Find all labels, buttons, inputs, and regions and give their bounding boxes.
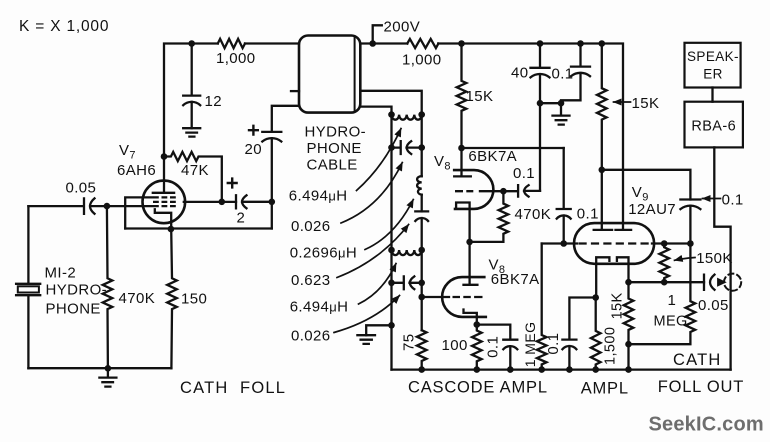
capacitor 0.1 (beside 40) [561,44,590,104]
V9 left cathode [596,257,609,297]
V8 lower cathode [464,310,477,325]
resistor 15K (V9 cathode) [624,282,634,369]
inductor 6.494uH (top) [392,115,422,120]
wire output node vertical [271,138,273,228]
RBA-6 box [685,102,743,148]
capacitor 0.026 (top) [392,141,422,154]
hydrophone cable inner edge [354,38,356,111]
wire top rail left segment [164,44,299,157]
wire speaker to RBA-6 [711,88,713,102]
V7 cathode [155,209,171,229]
filter right rail upper [421,115,423,177]
resistor 47K [164,152,222,202]
svg-text:12: 12 [205,93,223,110]
svg-text:150K: 150K [696,250,733,267]
svg-text:12AU7: 12AU7 [628,201,676,218]
wire bottom rail [392,368,731,370]
arrow 6.494uH lower [359,264,397,305]
capacitor 0.1 (output) [680,200,700,244]
V8 lower plate [464,242,478,285]
wire 1MEG top to grid node [542,242,564,244]
tube V7 envelope [143,181,186,224]
V9 grid line [564,242,691,244]
svg-text:6BK7A: 6BK7A [468,148,517,165]
output jack (dashed circle) [724,274,741,291]
svg-text:20: 20 [245,141,263,158]
capacitor 0.1 (cascode grid) [518,185,540,196]
wire V9 plate output run [602,170,691,200]
svg-text:470K: 470K [515,206,552,223]
resistor 15K (cascode plate) [457,44,467,149]
svg-text:0.026: 0.026 [291,218,331,235]
V7 suppressor tie wire [125,197,152,228]
svg-text:0.623: 0.623 [291,272,331,289]
wire stub left of cable [291,90,299,92]
V8 upper cathode [456,203,470,242]
hydrophone MI-2 element [16,284,40,368]
wire hydrophone left drop [27,206,29,284]
svg-text:CASCODE AMPL: CASCODE AMPL [408,379,548,397]
tube V9 envelope [574,223,654,264]
svg-text:0.1: 0.1 [545,333,562,355]
svg-text:1,500: 1,500 [602,327,618,365]
svg-text:1: 1 [668,292,677,309]
arrow 0.2696uH [365,200,413,250]
filter right rail lower [421,250,423,330]
V8 upper grid [455,190,517,192]
svg-text:200V: 200V [384,19,421,36]
inductor 6.494uH (lower) [392,250,422,255]
V8 upper plate [454,148,471,176]
resistor 100 [472,325,482,370]
resistor 470K (cascode) [470,191,509,242]
svg-text:0.2696μH: 0.2696μH [290,245,357,262]
svg-text:PHONE: PHONE [307,140,362,157]
filter left rail [390,115,392,370]
capacitor 0.026 (lower) [392,276,422,289]
resistor 15K (V9 plate) [597,44,607,170]
svg-text:150: 150 [181,291,207,308]
svg-text:470K: 470K [119,290,156,307]
svg-text:1,000: 1,000 [402,52,442,69]
V8 lower grid [453,296,483,298]
svg-text:47K: 47K [181,162,209,179]
svg-text:RBA-6: RBA-6 [691,119,736,135]
capacitor 0.1 (lower cathode bypass) [477,325,518,370]
resistor 1 MEG (follower) [629,244,696,345]
V7 plate [153,157,174,193]
svg-text:CATH: CATH [673,351,722,369]
resistor 150 [167,229,177,368]
arrow 0.1 output label [703,198,721,200]
svg-text:6.494μH: 6.494μH [290,299,349,316]
capacitor 0.623 (vertical) [415,211,428,250]
svg-text:6.494μH: 6.494μH [289,188,348,205]
svg-text:6AH6: 6AH6 [117,162,156,179]
hydrophone cable body [299,36,360,113]
svg-text:1,000: 1,000 [216,50,256,67]
wire cathode output run [629,281,705,283]
inductor 0.2696uH (vertical) [417,176,422,195]
svg-text:15K: 15K [610,292,626,319]
arrow 0.026 top [341,163,402,224]
tube V8 lower envelope [442,277,486,317]
svg-text:HYDRO-: HYDRO- [46,282,108,299]
wire filter output to V8 lower grid [422,296,449,298]
svg-text:MEG: MEG [654,314,688,330]
arrow 15K label (V9 plate) [614,101,631,103]
ground hydrophone [99,368,116,386]
V9 left plate [594,170,612,230]
ground filter [357,335,375,344]
svg-text:SeekIC.com: SeekIC.com [649,414,764,436]
V9 right cathode [617,257,629,282]
svg-text:PHONE: PHONE [46,301,101,318]
wire cascode coupling run [462,147,564,149]
svg-text:V8: V8 [434,153,451,173]
resistor 1 MEG (cascode grid leak) [537,244,547,370]
arrowhead into output jack [718,278,726,286]
resistor 1,000 (right) [407,39,438,48]
svg-text:40: 40 [511,65,529,82]
capacitor 2 (+) [236,195,272,208]
svg-text:100: 100 [442,337,468,354]
filter right rail mid [421,195,423,212]
capacitor 40 [531,44,550,104]
svg-text:K = X 1,000: K = X 1,000 [19,18,109,35]
svg-text:2: 2 [237,210,246,227]
capacitor 0.05 [28,198,107,213]
svg-text:V7: V7 [119,142,136,162]
svg-text:0.05: 0.05 [698,297,729,314]
capacitor 0.05 [704,275,715,290]
svg-text:0.1: 0.1 [513,165,535,182]
wire filter ground tie [366,325,391,335]
svg-text:15K: 15K [466,88,494,105]
svg-text:AMPL: AMPL [581,380,629,398]
svg-text:FOLL OUT: FOLL OUT [658,378,744,396]
svg-text:ER: ER [703,67,723,82]
resistor 1,000 (left) [218,39,245,48]
wire RBA-6 lead [714,147,730,369]
svg-text:1 MEG: 1 MEG [522,322,538,368]
arrow 0.026 lower [334,296,400,333]
wire bottom left run [28,367,171,369]
resistor 150K [659,244,669,282]
wire cable to filter top [360,91,421,115]
resistor 1,500 [591,298,601,370]
svg-text:0.026: 0.026 [291,328,331,345]
arrow 6.494uH top [357,129,402,191]
capacitor 0.1 (V9 coupling) [557,148,571,244]
svg-text:0.1: 0.1 [485,336,502,358]
plus sign for capacitor 2 [228,179,237,188]
tube V8 upper envelope [454,170,493,209]
svg-text:0.1: 0.1 [722,192,744,209]
arrow 0.623 [337,225,409,278]
svg-text:75: 75 [401,334,418,352]
svg-text:15K: 15K [632,95,660,112]
capacitor 20 (+) [262,106,299,142]
resistor 75 [417,330,427,369]
svg-text:CATH FOLL: CATH FOLL [180,379,286,397]
ground below capacitor 12 [183,128,200,136]
svg-text:HYDRO-: HYDRO- [305,124,367,141]
wire -200V tap [373,25,382,43]
capacitor 0.1 (V9 cathode bypass) [562,298,595,370]
svg-text:0.05: 0.05 [66,180,97,197]
speaker box [685,43,741,88]
wire top rail right segment [360,44,623,230]
svg-text:0.1: 0.1 [577,206,599,223]
plus sign for capacitor 20 [249,126,258,135]
wire cable to filter left rail [360,107,391,115]
svg-text:SPEAK-: SPEAK- [687,49,739,64]
svg-text:CABLE: CABLE [307,157,358,174]
svg-text:MI-2: MI-2 [45,265,77,282]
wire grid ground vertical [539,103,541,191]
arrow 150K label [675,258,696,261]
wire input to grid [107,205,152,207]
V7 grid rows (dashes) [153,197,176,206]
wire 40-0.1 ground junction [540,102,561,104]
resistor 470K [103,206,113,368]
ground 40/0.1 [553,103,570,124]
capacitor 12 [183,44,200,129]
svg-text:0.1: 0.1 [552,66,574,83]
wire cathode bottom run [125,227,272,229]
svg-text:6BK7A: 6BK7A [491,271,540,288]
V9 right plate [616,229,632,231]
V7 screen exit wire [184,201,236,203]
